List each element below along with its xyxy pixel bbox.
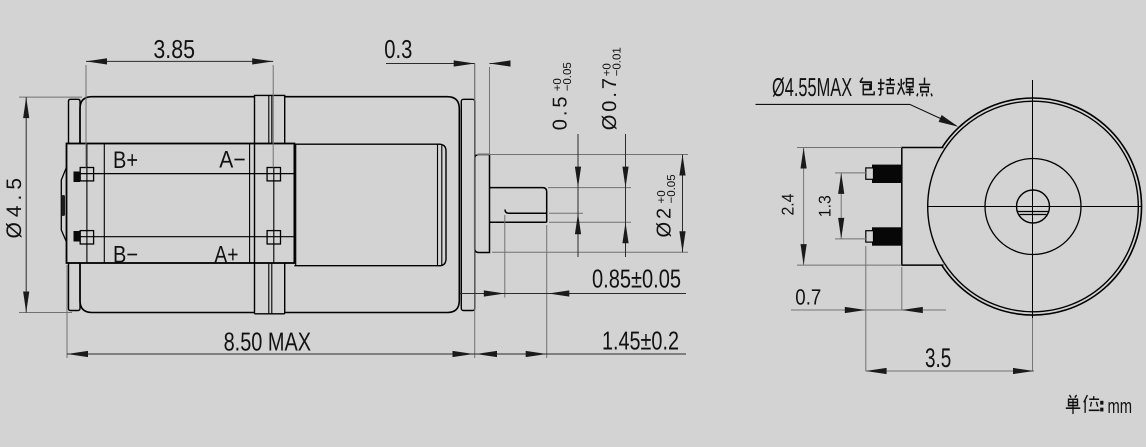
3.85 arrow right (252, 58, 273, 64)
0.7 arrow left (845, 307, 866, 313)
shaft extension lines (476, 155, 688, 253)
0.7 arrow right (902, 307, 923, 313)
screw A- (267, 168, 280, 181)
crosshair vertical (1032, 80, 1034, 318)
dia2 arrow bottom (679, 231, 685, 252)
bearing boss (475, 155, 490, 253)
outer solder circle (942, 98, 1142, 315)
svg-text:−0.05: −0.05 (666, 174, 678, 203)
shaft flat chords (1018, 212, 1049, 215)
screw column left (86, 144, 88, 264)
8.50 arrow right (453, 351, 474, 357)
screw A+ (267, 231, 280, 244)
svg-text:1.3: 1.3 (815, 195, 834, 217)
char han (897, 79, 914, 96)
shaft (490, 188, 547, 223)
dia4.5 dim line (25, 97, 27, 312)
terminal plate (67, 144, 295, 264)
wire row 1 (80, 173, 294, 175)
left end bar lower (69, 263, 81, 311)
bracket (902, 148, 944, 266)
0.3 arrow left (454, 60, 475, 66)
chinese text danwei mm (1066, 395, 1104, 414)
0.85 arrow right (548, 290, 569, 296)
svg-text:A−: A− (219, 147, 245, 174)
3.5 arrow right (1013, 368, 1034, 374)
dia0.7 arrow top (622, 167, 628, 188)
dim dia2 line (682, 155, 684, 253)
svg-text:2.4: 2.4 (779, 194, 798, 216)
solder pad bottom (74, 231, 81, 242)
fullwidth colon (1100, 401, 1103, 412)
bearing dark lens (62, 195, 65, 216)
dim 3.85 ext lines (86, 65, 273, 168)
can circle (928, 101, 1139, 312)
dim 0.3 line (386, 63, 511, 65)
0.3 arrow right (490, 60, 511, 66)
plate inner line right (249, 144, 251, 264)
svg-text:mm: mm (1108, 395, 1133, 418)
3.85 arrow left (86, 58, 107, 64)
chinese text baokuo handian (860, 78, 932, 97)
2.4 arrow top (801, 148, 807, 169)
svg-text:Ø0.7: Ø0.7 (599, 75, 621, 130)
svg-text:−0.01: −0.01 (612, 47, 624, 76)
svg-text:1.45±0.2: 1.45±0.2 (602, 326, 679, 356)
right end band (461, 99, 474, 310)
svg-text:Ø2: Ø2 (654, 205, 676, 238)
1.3 arrow top (838, 173, 844, 194)
motor body can (80, 97, 459, 313)
plate inner line left (103, 144, 105, 264)
bottom ext lines (67, 64, 547, 359)
middle band seam lines (269, 95, 272, 313)
right view 2.4 dim line (803, 148, 805, 266)
inner cylinder (294, 144, 446, 266)
svg-text:0.3: 0.3 (384, 34, 412, 64)
right view 0.7 ext lines (866, 246, 902, 371)
shaft circle (1017, 190, 1050, 223)
svg-text:A+: A+ (214, 242, 238, 269)
svg-text:3.5: 3.5 (925, 343, 951, 373)
dim dia0.7 line (625, 134, 627, 257)
screw B- (80, 231, 93, 244)
svg-text:−0.05: −0.05 (562, 62, 574, 91)
left end bar upper (69, 99, 81, 143)
dim 0.85 line (460, 293, 686, 295)
svg-text:8.50 MAX: 8.50 MAX (224, 327, 311, 357)
svg-text:Ø4.55MAX: Ø4.55MAX (772, 72, 852, 102)
char dan (1066, 395, 1080, 414)
svg-text:B−: B− (113, 242, 138, 269)
0.85 ext line (504, 215, 506, 298)
dia4.5 arrow top (23, 97, 29, 118)
leader arrow (939, 115, 959, 127)
screw column right (273, 168, 275, 264)
right view 1.3 ext lines (835, 173, 866, 239)
0.85 arrow left (484, 290, 505, 296)
dia4.5 ext lines (19, 97, 82, 312)
2.4 arrow bottom (801, 244, 807, 265)
dia4.5 arrow bottom (23, 292, 29, 313)
svg-text:0.85±0.05: 0.85±0.05 (592, 263, 681, 293)
char bao (860, 78, 874, 95)
label dia0.7 tol rotated (599, 47, 624, 130)
inner cylinder left edge (295, 144, 297, 266)
svg-text:Ø4.5: Ø4.5 (3, 173, 26, 239)
dia0.7 arrow bottom (622, 222, 628, 243)
char dian (917, 78, 932, 97)
dim 0.3 ext lines (475, 64, 490, 155)
rear bearing bump (61, 167, 66, 242)
terminal top cap (866, 168, 874, 179)
right view 1.3 dim line (840, 173, 842, 239)
middle band (255, 95, 285, 313)
middle circle (985, 159, 1081, 255)
1.45 arrow right (526, 351, 547, 357)
crosshair horizontal (928, 206, 1142, 208)
0.5 arrow top (575, 167, 581, 188)
shaft flat (505, 210, 547, 214)
3.5 arrow left (866, 368, 887, 374)
right view 0.7 dim line (791, 309, 946, 311)
label dia2 tol rotated (654, 174, 679, 237)
solder pad top (74, 172, 81, 183)
0.5 arrow bottom (575, 213, 581, 234)
char kuo (878, 78, 895, 95)
svg-text:0.5: 0.5 (550, 93, 572, 130)
svg-text:3.85: 3.85 (153, 34, 195, 64)
leader line (756, 104, 957, 125)
1.45 arrow left (476, 351, 497, 357)
dim 3.85 line (86, 60, 273, 62)
char wei (1084, 395, 1100, 413)
right view 3.5 dim line (866, 318, 1034, 371)
dim 0.5 line (577, 134, 579, 257)
label 0.5 tol rotated (550, 62, 575, 130)
wire row 2 (80, 236, 294, 238)
terminal bottom cap (866, 231, 874, 242)
terminal bottom black (872, 227, 902, 245)
terminal top black (872, 165, 902, 183)
1.3 arrow bottom (838, 218, 844, 239)
8.50 arrow left (67, 351, 88, 357)
commutator lines (438, 144, 442, 266)
right view 2.4 ext lines (797, 148, 902, 266)
svg-text:0.7: 0.7 (795, 284, 821, 309)
screw B+ (80, 168, 93, 181)
dia2 arrow top (679, 155, 685, 176)
bottom dim line 8.50 and 1.45 (67, 353, 686, 355)
svg-text:B+: B+ (113, 147, 138, 174)
